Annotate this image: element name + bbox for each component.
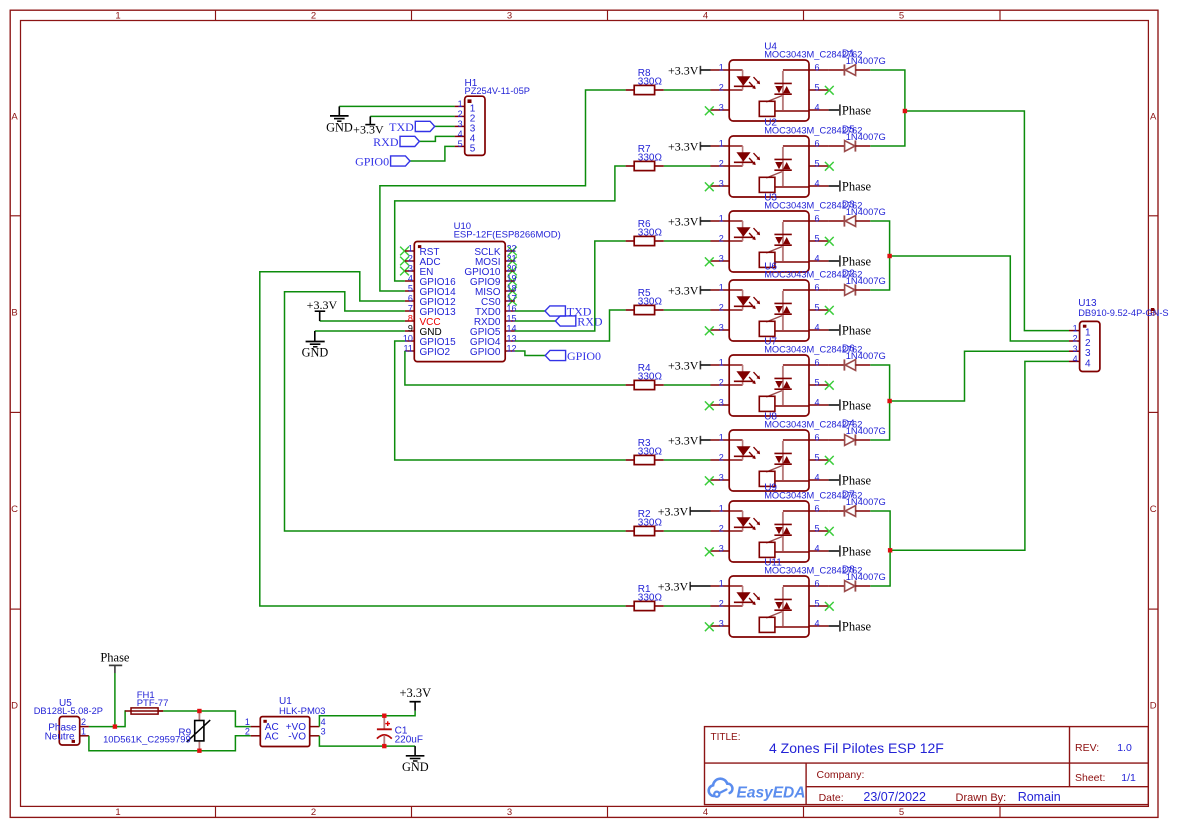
svg-text:20: 20 [507, 264, 517, 274]
net port TXD [389, 120, 435, 134]
optocoupler U11 MOC3043M [711, 557, 863, 637]
svg-text:A: A [11, 112, 18, 123]
svg-text:21: 21 [507, 254, 517, 264]
diode D8 1N4007G [829, 565, 886, 592]
svg-text:2: 2 [311, 807, 316, 818]
resistor R2 330 ohm [626, 509, 664, 536]
IC U10 ESP-12F(ESP8266MOD) [403, 221, 561, 362]
ground symbol GND [302, 331, 329, 360]
svg-text:RXD: RXD [373, 135, 399, 149]
svg-text:2: 2 [719, 599, 724, 609]
svg-text:1N4007G: 1N4007G [846, 571, 886, 582]
svg-text:Phase: Phase [842, 545, 872, 559]
svg-text:2: 2 [408, 254, 413, 264]
no-connect flag pin3 [705, 257, 714, 266]
svg-text:3: 3 [719, 179, 724, 189]
svg-text:4: 4 [815, 179, 820, 189]
wire [664, 89, 711, 91]
svg-text:6: 6 [815, 139, 820, 149]
svg-text:+3.3V: +3.3V [668, 64, 699, 78]
junction [887, 399, 891, 403]
wire [664, 165, 711, 167]
no-connect flag pin3 [705, 547, 714, 556]
svg-text:1: 1 [408, 244, 413, 254]
svg-text:5: 5 [815, 234, 820, 244]
no-connect flag pin3 [705, 106, 714, 115]
no-connect flag pin22 [508, 247, 517, 256]
svg-text:1: 1 [81, 726, 86, 736]
wire [515, 320, 556, 322]
wire [890, 361, 1069, 550]
fuse FH1 PTF-77 [125, 690, 168, 714]
svg-text:330Ω: 330Ω [638, 297, 663, 308]
wire [664, 240, 711, 242]
svg-text:Drawn By:: Drawn By: [956, 792, 1007, 804]
diode D1 1N4007G [829, 49, 886, 76]
svg-text:9: 9 [408, 324, 413, 334]
capacitor C1 220uF [377, 716, 423, 746]
wire GPIO12 to R1 [260, 272, 626, 606]
svg-text:4: 4 [815, 323, 820, 333]
no-connect flag pin17 [508, 297, 517, 306]
svg-text:2: 2 [311, 11, 316, 22]
+3.3V power flag [658, 505, 711, 519]
svg-text:2: 2 [719, 159, 724, 169]
svg-text:5: 5 [408, 284, 413, 294]
optocoupler U9 MOC3043M [711, 482, 863, 562]
+3.3V power flag [668, 359, 711, 373]
svg-text:22: 22 [507, 244, 517, 254]
resistor R7 330 ohm [626, 144, 664, 171]
wire [905, 111, 1069, 331]
no-connect flag pin5 [825, 602, 834, 611]
wire GPIO13 to R2 [285, 292, 626, 531]
title block [705, 727, 1149, 805]
+3.3V power flag [668, 64, 711, 78]
no-connect flag pin5 [825, 162, 834, 171]
+3.3V power flag [668, 284, 711, 298]
svg-text:ESP-12F(ESP8266MOD): ESP-12F(ESP8266MOD) [454, 229, 561, 240]
svg-text:A: A [1150, 112, 1157, 123]
svg-text:6: 6 [815, 358, 820, 368]
svg-text:DB128L-5.08-2P: DB128L-5.08-2P [34, 706, 103, 716]
wire [339, 105, 454, 107]
wire [515, 351, 545, 356]
svg-text:RXD: RXD [577, 314, 603, 328]
connector U13 DB910-9.52-4P-GN-S [1069, 298, 1169, 372]
svg-text:6: 6 [815, 63, 820, 73]
no-connect flag pin5 [825, 527, 834, 536]
svg-text:GPIO2: GPIO2 [420, 347, 451, 358]
optocoupler U3 MOC3043M [711, 192, 863, 272]
power module U1 HLK-PM03 [245, 696, 326, 747]
svg-text:1: 1 [1073, 323, 1078, 333]
no-connect flag pin3 [705, 622, 714, 631]
svg-text:3: 3 [719, 619, 724, 629]
svg-text:TXD: TXD [389, 120, 414, 134]
svg-text:17: 17 [507, 294, 517, 304]
svg-text:GND: GND [326, 121, 353, 135]
diode D3 1N4007G [829, 200, 886, 227]
svg-text:1: 1 [719, 579, 724, 589]
no-connect flag pin21 [508, 257, 517, 266]
svg-text:Neutre: Neutre [45, 732, 75, 743]
resistor R8 330 ohm [626, 68, 664, 95]
svg-text:GPIO0: GPIO0 [355, 155, 389, 169]
svg-text:GPIO0: GPIO0 [470, 347, 501, 358]
svg-text:3: 3 [321, 726, 326, 736]
+3.3V power flag [353, 116, 384, 136]
svg-text:4: 4 [408, 274, 413, 284]
svg-text:HLK-PM03: HLK-PM03 [279, 706, 325, 717]
svg-text:+3.3V: +3.3V [668, 434, 699, 448]
svg-text:Phase: Phase [842, 324, 872, 338]
svg-text:6: 6 [815, 283, 820, 293]
svg-text:4 Zones Fil Pilotes ESP 12F: 4 Zones Fil Pilotes ESP 12F [769, 740, 944, 756]
optocoupler U2 MOC3043M [711, 117, 863, 197]
svg-text:1: 1 [719, 358, 724, 368]
svg-text:AC: AC [265, 731, 279, 742]
svg-text:GPIO0: GPIO0 [567, 349, 601, 363]
svg-text:330Ω: 330Ω [638, 518, 663, 529]
junction [888, 548, 892, 552]
svg-text:4: 4 [458, 129, 463, 139]
svg-text:2: 2 [719, 303, 724, 313]
no-connect flag pin3 [705, 182, 714, 191]
svg-text:5: 5 [815, 599, 820, 609]
svg-text:4: 4 [815, 619, 820, 629]
svg-text:6: 6 [815, 214, 820, 224]
no-connect flag pin1 [400, 247, 409, 256]
svg-text:Phase: Phase [842, 104, 872, 118]
wire GPIO16 to R7 [395, 166, 626, 281]
wire [515, 310, 545, 312]
junction [382, 744, 386, 748]
svg-text:Phase: Phase [842, 474, 872, 488]
svg-text:1: 1 [115, 11, 120, 22]
svg-text:10D561K_C2959799: 10D561K_C2959799 [103, 734, 191, 745]
svg-text:GND: GND [302, 346, 329, 360]
wire [370, 115, 454, 117]
svg-text:2: 2 [458, 109, 463, 119]
svg-text:4: 4 [815, 473, 820, 483]
svg-text:1N4007G: 1N4007G [846, 350, 886, 361]
no-connect flag pin5 [825, 381, 834, 390]
svg-text:1.0: 1.0 [1117, 742, 1132, 754]
no-connect flag pin3 [400, 267, 409, 276]
svg-text:+3.3V: +3.3V [668, 359, 699, 373]
resistor R5 330 ohm [626, 288, 664, 315]
junction [887, 254, 891, 258]
date row [819, 790, 1061, 804]
svg-text:2: 2 [719, 234, 724, 244]
connector H1 PZ254V-11-05P [455, 78, 530, 155]
wire [890, 256, 1069, 341]
svg-text:Phase: Phase [842, 620, 872, 634]
svg-text:4: 4 [703, 11, 708, 22]
resistor R4 330 ohm [626, 363, 664, 390]
Phase net flag [829, 104, 872, 118]
no-connect flag pin19 [508, 277, 517, 286]
svg-text:4: 4 [815, 103, 820, 113]
Phase net flag [829, 255, 872, 269]
wire [319, 711, 415, 727]
no-connect flag pin5 [825, 237, 834, 246]
wire GPIO5 to R6 [515, 241, 626, 331]
Phase net flag [829, 399, 872, 413]
svg-text:23/07/2022: 23/07/2022 [863, 790, 926, 804]
Phase net flag [829, 545, 872, 559]
wire [320, 320, 405, 322]
svg-text:1: 1 [115, 807, 120, 818]
svg-text:REV:: REV: [1075, 742, 1099, 754]
rev label [1075, 742, 1132, 754]
svg-text:+3.3V: +3.3V [307, 298, 338, 312]
svg-text:330Ω: 330Ω [638, 447, 663, 458]
svg-text:3: 3 [719, 398, 724, 408]
svg-text:1: 1 [1085, 328, 1091, 339]
net port GPIO0 [545, 349, 601, 363]
svg-text:GND: GND [402, 760, 429, 774]
svg-text:1N4007G: 1N4007G [846, 206, 886, 217]
svg-text:330Ω: 330Ω [638, 153, 663, 164]
wire [664, 459, 711, 461]
no-connect flag pin5 [825, 86, 834, 95]
diode D2 1N4007G [829, 269, 886, 296]
svg-text:330Ω: 330Ω [638, 77, 663, 88]
svg-text:D: D [11, 700, 18, 711]
svg-text:+3.3V: +3.3V [399, 686, 431, 700]
no-connect flag pin20 [508, 267, 517, 276]
wire [410, 146, 455, 161]
svg-text:C: C [1150, 504, 1157, 515]
svg-text:2: 2 [719, 378, 724, 388]
svg-text:1: 1 [719, 63, 724, 73]
optocoupler U8 MOC3043M [711, 411, 863, 491]
svg-text:TITLE:: TITLE: [711, 732, 741, 743]
wire [664, 605, 711, 607]
svg-text:12: 12 [507, 344, 517, 354]
svg-text:Sheet:: Sheet: [1075, 772, 1105, 784]
svg-text:1: 1 [719, 283, 724, 293]
junction [197, 749, 201, 753]
varistor R9 10D561K_C2959799 [103, 711, 210, 751]
wire GPIO15 to R3 [395, 341, 626, 460]
no-connect flag pin3 [705, 326, 714, 335]
wire [664, 384, 711, 386]
svg-text:U1: U1 [279, 696, 292, 707]
svg-text:Romain: Romain [1018, 790, 1061, 804]
net port RXD [555, 314, 602, 328]
optocoupler U4 MOC3043M [711, 41, 863, 121]
Phase net flag [829, 180, 872, 194]
junction [113, 724, 117, 728]
svg-text:330Ω: 330Ω [638, 593, 663, 604]
svg-text:+3.3V: +3.3V [668, 140, 699, 154]
svg-text:D: D [1150, 700, 1157, 711]
svg-text:PTF-77: PTF-77 [137, 698, 169, 709]
diode D6 1N4007G [829, 344, 886, 371]
net port GPIO0 [355, 155, 410, 169]
Phase net flag [829, 620, 872, 634]
svg-text:6: 6 [408, 294, 413, 304]
+3.3V power flag [668, 434, 711, 448]
wire [664, 530, 711, 532]
no-connect flag pin2 [400, 257, 409, 266]
svg-text:4: 4 [815, 398, 820, 408]
+3.3V power flag [307, 298, 338, 321]
resistor R3 330 ohm [626, 438, 664, 465]
svg-text:19: 19 [507, 274, 517, 284]
svg-text:10: 10 [403, 334, 413, 344]
svg-text:220uF: 220uF [395, 735, 423, 746]
+3.3V power flag [399, 686, 431, 711]
svg-text:1/1: 1/1 [1121, 772, 1136, 784]
ground symbol GND [402, 746, 429, 774]
svg-text:5: 5 [815, 159, 820, 169]
junction [382, 714, 386, 718]
svg-text:1: 1 [458, 99, 463, 109]
svg-text:1: 1 [719, 139, 724, 149]
svg-text:5: 5 [899, 807, 904, 818]
svg-text:13: 13 [507, 334, 517, 344]
+3.3V power flag [668, 215, 711, 229]
optocoupler U7 MOC3043M [711, 336, 863, 416]
svg-text:4: 4 [1085, 358, 1091, 369]
wire [870, 365, 889, 440]
diode D4 1N4007G [829, 419, 886, 446]
svg-text:4: 4 [815, 254, 820, 264]
diode D5 1N4007G [829, 125, 886, 152]
svg-text:4: 4 [703, 807, 708, 818]
svg-text:Phase: Phase [842, 180, 872, 194]
no-connect flag pin5 [825, 456, 834, 465]
svg-text:1: 1 [719, 433, 724, 443]
Phase net flag [829, 474, 872, 488]
svg-text:Date:: Date: [819, 792, 844, 804]
svg-text:+3.3V: +3.3V [668, 284, 699, 298]
net port RXD [373, 135, 419, 149]
no-connect flag pin18 [508, 287, 517, 296]
wire [315, 330, 405, 332]
resistor R6 330 ohm [626, 219, 664, 246]
svg-text:2: 2 [719, 453, 724, 463]
svg-text:330Ω: 330Ω [638, 372, 663, 383]
svg-text:1: 1 [719, 504, 724, 514]
svg-text:330Ω: 330Ω [638, 228, 663, 239]
svg-text:2: 2 [245, 726, 250, 736]
svg-text:PZ254V-11-05P: PZ254V-11-05P [465, 86, 530, 96]
ground symbol GND [326, 106, 353, 134]
svg-text:Phase: Phase [842, 399, 872, 413]
Phase net flag [829, 324, 872, 338]
svg-text:+3.3V: +3.3V [658, 580, 689, 594]
svg-text:5: 5 [815, 378, 820, 388]
svg-text:1: 1 [719, 214, 724, 224]
svg-text:Phase: Phase [100, 651, 130, 665]
svg-text:EasyEDA: EasyEDA [737, 785, 806, 802]
svg-text:5: 5 [815, 453, 820, 463]
svg-text:1N4007G: 1N4007G [846, 55, 886, 66]
wire [89, 711, 126, 727]
wire GPIO2 to R4 [405, 351, 626, 385]
svg-text:8: 8 [408, 314, 413, 324]
wire GPIO4 to R5 [515, 310, 626, 341]
svg-text:5: 5 [458, 139, 463, 149]
svg-text:16: 16 [507, 304, 517, 314]
Phase net flag [100, 651, 130, 674]
svg-text:+3.3V: +3.3V [668, 215, 699, 229]
wire [89, 736, 251, 751]
EasyEDA logo [709, 779, 806, 802]
wire [870, 70, 905, 146]
wire [114, 673, 116, 727]
+3.3V power flag [658, 580, 711, 594]
svg-text:+3.3V: +3.3V [658, 505, 689, 519]
svg-text:1N4007G: 1N4007G [846, 131, 886, 142]
svg-text:5: 5 [815, 303, 820, 313]
svg-text:Company:: Company: [817, 769, 865, 781]
svg-text:B: B [11, 307, 17, 318]
svg-text:3: 3 [408, 264, 413, 274]
svg-text:3: 3 [507, 807, 512, 818]
svg-text:3: 3 [719, 323, 724, 333]
connector U5 DB128L-5.08-2P [34, 698, 103, 745]
no-connect flag pin5 [825, 306, 834, 315]
net port TXD [545, 304, 592, 318]
resistor R1 330 ohm [626, 584, 664, 611]
svg-text:Phase: Phase [842, 255, 872, 269]
wire GPIO14 to R8 [380, 90, 626, 291]
wire [870, 221, 889, 290]
no-connect flag pin3 [705, 401, 714, 410]
svg-text:1N4007G: 1N4007G [846, 275, 886, 286]
wire [419, 136, 454, 141]
wire [435, 125, 455, 127]
svg-text:5: 5 [815, 83, 820, 93]
svg-text:4: 4 [815, 544, 820, 554]
svg-text:14: 14 [507, 324, 517, 334]
svg-text:15: 15 [507, 314, 517, 324]
svg-text:DB910-9.52-4P-GN-S: DB910-9.52-4P-GN-S [1078, 308, 1168, 318]
svg-text:5: 5 [899, 11, 904, 22]
wire [664, 309, 711, 311]
svg-text:6: 6 [815, 579, 820, 589]
diode D7 1N4007G [829, 490, 886, 517]
svg-text:5: 5 [815, 524, 820, 534]
svg-text:-VO: -VO [288, 731, 306, 742]
svg-text:3: 3 [458, 119, 463, 129]
svg-text:1N4007G: 1N4007G [846, 425, 886, 436]
wire [163, 711, 251, 727]
svg-text:18: 18 [507, 284, 517, 294]
svg-text:5: 5 [470, 144, 476, 155]
svg-text:7: 7 [408, 304, 413, 314]
svg-text:1N4007G: 1N4007G [846, 496, 886, 507]
svg-text:3: 3 [507, 11, 512, 22]
svg-text:3: 3 [1073, 344, 1078, 354]
wire [890, 351, 1069, 401]
svg-text:6: 6 [815, 433, 820, 443]
junction [903, 109, 907, 113]
svg-text:3: 3 [719, 473, 724, 483]
svg-text:C: C [11, 504, 18, 515]
optocoupler U6 MOC3043M [711, 261, 863, 341]
svg-text:3: 3 [719, 544, 724, 554]
junction [197, 709, 201, 713]
no-connect flag pin3 [705, 476, 714, 485]
wire [319, 736, 415, 746]
